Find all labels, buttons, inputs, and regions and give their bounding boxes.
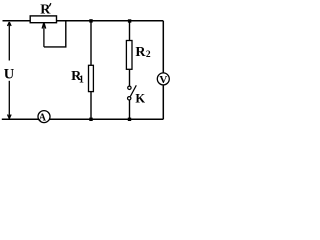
switch K lower contact [128, 97, 131, 100]
svg-text:2: 2 [146, 50, 151, 60]
wire: top rail [3, 20, 164, 22]
node: bottom junction of R2 [128, 118, 131, 121]
label R' prime tick [49, 3, 51, 6]
svg-text:V: V [159, 74, 167, 86]
svg-text:A: A [39, 113, 47, 124]
switch K lever [130, 85, 136, 96]
ammeter A [38, 111, 50, 123]
voltage annotation U: down arrow [8, 81, 12, 119]
voltage annotation U: up arrow [8, 22, 12, 61]
switch K upper contact [128, 86, 131, 89]
wire: wiper loop to top rail [44, 21, 66, 47]
wire: bottom rail [2, 118, 164, 120]
node: top junction of R1 [89, 19, 92, 22]
resistor R1 body [89, 65, 94, 91]
node: top junction of R2 [128, 19, 131, 22]
svg-text:1: 1 [79, 74, 84, 85]
wire: R1 branch lower [90, 91, 92, 119]
wire: R2 branch upper [129, 21, 131, 41]
wire: R2 to switch [129, 69, 131, 86]
svg-text:R: R [135, 45, 146, 60]
wire: R1 branch upper [90, 21, 92, 66]
wire: switch to bottom rail [129, 100, 131, 119]
wire: right rail [162, 21, 164, 120]
resistor R2 body [126, 41, 132, 70]
voltmeter V [157, 73, 169, 85]
rheostat R' wiper arrow [42, 23, 46, 47]
svg-text:K: K [135, 92, 145, 106]
rheostat R' body [30, 16, 56, 23]
node: bottom junction of R1 [89, 118, 92, 121]
svg-text:U: U [4, 67, 15, 83]
